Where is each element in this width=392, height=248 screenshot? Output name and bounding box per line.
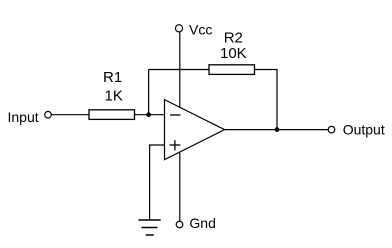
wire output: [225, 129, 329, 131]
svg-text:Gnd: Gnd: [189, 215, 215, 231]
terminal Input: [45, 111, 52, 118]
wire op-amp negative supply to Gnd terminal: [179, 152, 181, 221]
wire non-inverting input: [150, 145, 165, 220]
svg-text:Input: Input: [8, 109, 39, 125]
wire R2 to feedback right corner: [255, 70, 278, 130]
wire feedback top to R2: [149, 69, 209, 71]
terminal Gnd: [176, 221, 183, 228]
terminal Output: [328, 126, 335, 133]
resistor R2: [209, 65, 255, 75]
svg-text:R1: R1: [103, 69, 122, 86]
op-amp U1 body: [165, 100, 225, 160]
svg-text:1K: 1K: [105, 87, 123, 104]
svg-text:Vcc: Vcc: [189, 22, 212, 38]
junction node inverting input: [146, 112, 151, 117]
resistor R1: [89, 110, 135, 120]
ground: [138, 220, 160, 235]
wire feedback vertical left: [148, 70, 150, 115]
junction node output: [275, 127, 280, 132]
terminal Vcc: [175, 25, 182, 32]
op-amp inverting marker: [170, 114, 181, 116]
wire Vcc to op-amp positive supply: [179, 32, 181, 108]
wire Input terminal to R1: [51, 114, 89, 116]
op-amp non-inverting marker: [170, 144, 181, 146]
svg-text:10K: 10K: [220, 45, 247, 62]
wire R1 to inverting input: [135, 114, 165, 116]
svg-text:Output: Output: [343, 122, 385, 138]
